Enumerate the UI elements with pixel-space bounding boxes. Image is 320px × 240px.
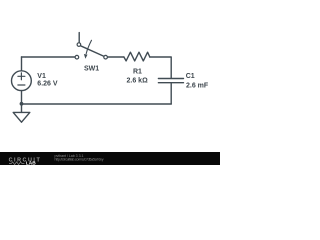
V1 minus sign [18,84,25,86]
svg-text:2.6 kΩ: 2.6 kΩ [127,78,149,85]
switch SW1 arrowhead [84,54,88,59]
junction dot at V1/ground node [20,102,24,106]
V1 plus sign [18,73,25,80]
svg-text:C1: C1 [186,73,195,80]
wire capacitor to bottom wire [170,83,172,104]
svg-text:2.6 mF: 2.6 mF [186,83,209,90]
svg-text:http://circuitlab.com/c/c7d5a5: http://circuitlab.com/c/c7d5a5a7dxy [55,157,104,161]
wire resistor to top-right corner down to capacitor [150,57,171,78]
svg-text:SW1: SW1 [84,66,99,73]
ground symbol [13,112,30,122]
switch SW1 top terminal [77,43,81,47]
svg-text:V1: V1 [37,73,46,80]
switch SW1 arrow [86,40,91,53]
wire left rail top [21,57,23,71]
bottom wire [22,103,172,105]
wire top from left rail to switch left terminal [22,56,75,58]
wire switch right terminal to resistor [108,56,124,58]
wire V1 bottom to junction [21,91,23,104]
capacitor C1 plates [158,79,183,83]
switch SW1 blade [80,46,104,57]
resistor R1 [124,52,150,61]
switch SW1 right terminal [104,55,108,59]
CircuitLab logo zigzag [9,162,24,165]
voltage source V1 circle [12,71,32,91]
ground stub [21,104,23,112]
switch SW1 top stub [78,33,80,43]
watermark bar [0,152,220,165]
svg-text:LAB: LAB [26,161,36,166]
switch SW1 left terminal [75,55,79,59]
svg-text:R1: R1 [133,69,142,76]
svg-text:6.26 V: 6.26 V [37,81,58,88]
